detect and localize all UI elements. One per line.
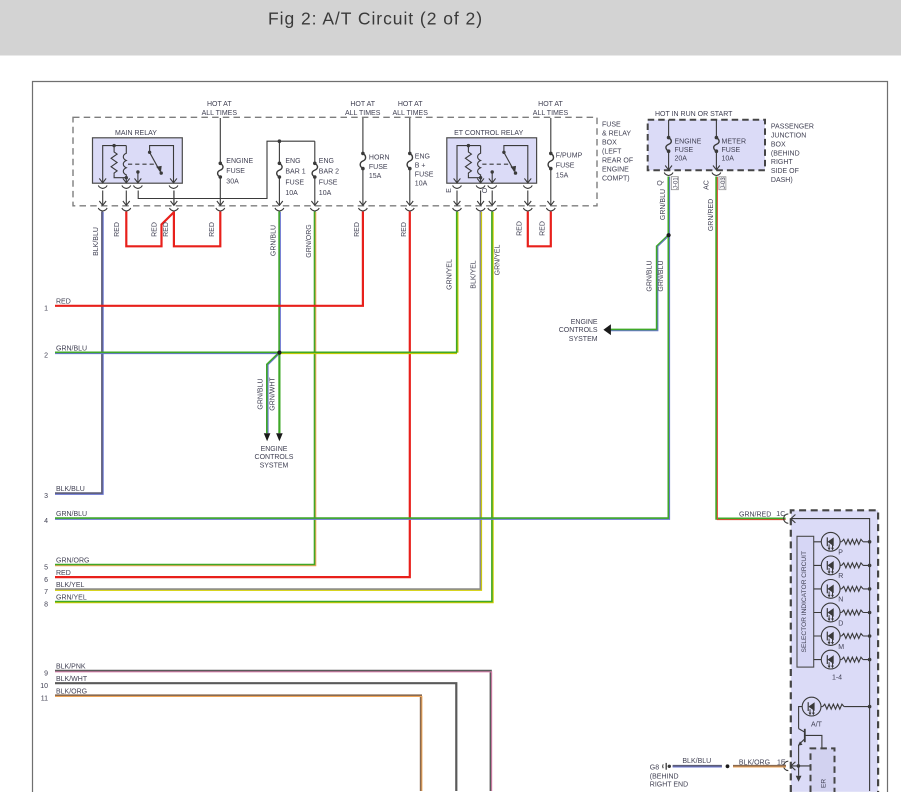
svg-text:R: R [838,573,843,580]
svg-text:COMPT): COMPT) [602,176,630,183]
main relay coil winding [123,146,126,183]
fuse & relay box label [602,122,633,183]
svg-text:D: D [838,620,843,627]
title bar [0,0,901,56]
wire: relay pin3 to ENG BAR fuse rail [138,141,315,198]
fuse ENG B+ FUSE 10A [408,152,412,156]
svg-text:ENGINE: ENGINE [571,319,598,326]
wire RED ET relay pin 4 to F/PUMP FUSE [528,212,551,247]
ET control relay switch arm [504,152,514,171]
main relay pin 4 box-edge connector [170,178,177,182]
svg-text:O: O [482,187,489,193]
passenger junction box label [771,124,814,184]
fuse box bottom edge connector [123,201,130,205]
wire GRN/YEL ET relay pin O to row 8 [55,212,492,602]
ET control relay pin 3 box-edge connector [489,178,496,182]
wire GRN/RED METER FUSE to selector indicator circuit [716,177,785,519]
wire: feed to METER FUSE 10A [715,120,717,170]
wire BLK/YEL ET relay pin 2 to row 7 [55,212,481,590]
wire GRN/BLU branch to engine controls system [610,235,669,330]
HORN FUSE 15A label [369,155,390,181]
wire: feed to ENGINE FUSE 20A [668,120,670,170]
svg-text:10A: 10A [285,190,298,197]
ET control relay contact pin 3 stub [491,172,493,183]
ENGINE FUSE 30A label [226,158,253,185]
main relay pin4 wire [173,191,175,206]
(BEHIND RIGHT END caption [650,773,688,788]
wire: HOT AT feed to HORN FUSE [362,118,364,205]
fuse box bottom edge connector [311,201,318,205]
svg-text:MAIN RELAY: MAIN RELAY [115,130,157,137]
selector LED P [821,532,840,551]
svg-text:HOT AT: HOT AT [207,101,232,108]
svg-text:FUSE: FUSE [369,164,388,171]
rail junction dot P [868,540,872,544]
svg-text:11: 11 [41,695,48,702]
resistor for LED R [842,563,864,568]
wire BLK/ORG splice to 1E [733,765,786,767]
svg-text:15A: 15A [556,173,569,180]
svg-text:ENG: ENG [415,154,430,161]
svg-text:SYSTEM: SYSTEM [260,463,289,470]
ET control relay coil winding [478,146,481,183]
svg-text:GRN/BLU: GRN/BLU [56,511,87,518]
ET control relay pin 2 box-edge connector [477,178,484,182]
wire GRN/BLU ENG BAR 1 fuse to row 2 junction [278,212,280,353]
HOT AT ALL TIMES label 2 [345,101,381,117]
selector LED D wire [814,612,870,614]
main relay pin wire [102,191,104,206]
svg-text:ALL TIMES: ALL TIMES [345,110,381,117]
wire: rail to ENG BAR 1 fuse [278,141,280,205]
selector LED 1-4 wire [814,659,870,661]
svg-text:ET CONTROL RELAY: ET CONTROL RELAY [454,130,523,137]
ET control relay switch pivot dot [502,151,505,154]
ENGINE CONTROLS SYSTEM text (right) [559,319,598,343]
resistor for LED 1-4 [842,657,864,662]
svg-text:SYSTEM: SYSTEM [569,336,598,343]
svg-text:FUSE: FUSE [285,179,304,186]
svg-text:GRN/BLU: GRN/BLU [646,260,653,291]
fuse box bottom edge connector [489,201,496,205]
svg-text:RED: RED [354,222,361,237]
wire GRN/ORG ENG BAR 2 fuse to row 5 [55,212,315,565]
svg-text:HORN: HORN [369,155,390,162]
ENG BAR 1 FUSE 10A label [285,158,305,197]
fuse box bottom edge connector [217,201,224,205]
svg-text:BAR 2: BAR 2 [319,169,339,176]
svg-text:RED: RED [151,222,158,237]
svg-text:G8: G8 [650,764,659,771]
fuse box bottom edge connector [360,201,367,205]
svg-text:BOX: BOX [771,141,786,148]
wire BLK/BLU G8 to splice [673,765,722,767]
svg-text:FUSE: FUSE [415,172,434,179]
rail junction dot N [868,587,872,591]
svg-text:1E: 1E [777,760,786,767]
svg-text:SIDE OF: SIDE OF [771,168,799,175]
fuse box bottom edge connector [547,201,554,205]
engine controls arrow left 1 [264,433,271,441]
ET control relay pin 4 box-edge connector [524,178,531,182]
ET control relay coil bottom junction dot [479,176,482,179]
svg-text:BLK/ORG: BLK/ORG [56,688,87,695]
selector LED 1-4 [821,650,840,669]
svg-text:(BEHIND: (BEHIND [650,773,679,780]
connector J-03 label [719,177,726,190]
svg-text:& RELAY: & RELAY [602,131,631,138]
svg-text:HOT AT: HOT AT [350,101,375,108]
ENGINE CONTROLS SYSTEM text (left) [255,446,294,470]
svg-text:HOT IN RUN OR START: HOT IN RUN OR START [655,111,733,118]
svg-text:GRN/BLU: GRN/BLU [258,378,265,409]
main relay pin wire [173,191,175,206]
wire row 2 GRN/BLU horizontal [55,352,457,354]
fuse ENGINE FUSE 20A [667,136,671,140]
svg-text:METER: METER [722,139,747,146]
svg-text:BLK/BLU: BLK/BLU [93,227,100,256]
resistor for LED M [842,634,864,639]
main relay coil bottom junction dot [125,176,128,179]
svg-text:M: M [838,644,844,651]
ET control relay coil resistor [465,146,471,175]
engine controls arrow left 2 [276,433,283,441]
METER FUSE 10A label [722,139,747,163]
emitter junction dot [797,764,801,768]
svg-text:10A: 10A [722,156,735,163]
junction box pin AC connector [713,166,720,170]
main relay coil resistor [111,146,117,175]
svg-text:2: 2 [44,352,48,359]
svg-text:RED: RED [56,570,71,577]
wire: rail to ENG BAR 2 fuse [314,141,316,205]
resistor for LED P [842,539,864,544]
svg-text:FUSE: FUSE [722,147,741,154]
svg-text:BLK/YEL: BLK/YEL [56,582,85,589]
main relay switch contact dot [160,171,163,174]
main relay box [93,138,183,183]
svg-text:RED: RED [56,299,71,306]
resistor for LED D [842,610,864,615]
svg-text:BLK/BLU: BLK/BLU [682,758,711,765]
fuse F/PUMP FUSE 15A [549,152,553,156]
HOT AT ALL TIMES label 4 [533,101,569,117]
wire: 1C feed to resistor rail [792,519,870,542]
wire row 10 BLK/WHT [55,683,456,791]
svg-text:AC: AC [704,180,711,190]
wire GRN/WHT branch to engine controls (left) [278,353,280,434]
fuse ENGINE FUSE 30A [219,162,223,166]
fuse box bottom edge connector [99,201,106,205]
svg-text:SELECTOR INDICATOR CIRCUIT: SELECTOR INDICATOR CIRCUIT [801,551,808,652]
svg-text:RED: RED [163,222,170,237]
svg-text:FUSE: FUSE [556,163,575,170]
svg-text:20A: 20A [675,156,688,163]
emitter ground arrow [796,776,802,782]
A/T resistor [823,704,845,709]
selector LED N wire [814,588,870,590]
svg-text:E: E [446,188,453,193]
svg-text:BOX: BOX [602,140,617,147]
svg-text:GRN/BLU: GRN/BLU [660,189,667,220]
rail junction dot D [868,611,872,615]
svg-text:GRN/WHT: GRN/WHT [270,377,277,411]
svg-text:J-01: J-01 [673,177,679,189]
svg-text:GRN/YEL: GRN/YEL [495,245,502,276]
svg-text:Q: Q [657,180,664,186]
svg-text:A/T: A/T [811,721,823,728]
ET relay pin wire [456,191,458,206]
svg-text:BAR 1: BAR 1 [285,169,305,176]
svg-text:BLK/WHT: BLK/WHT [56,676,88,683]
ENG B+ FUSE 10A label [415,154,434,188]
svg-text:FUSE: FUSE [602,122,621,129]
HOT AT ALL TIMES label 1 [202,101,238,117]
main relay top rail junction dot [112,144,115,147]
svg-text:10A: 10A [415,181,428,188]
ET control relay mechanical link (dashed) [482,163,510,165]
svg-text:REAR OF: REAR OF [602,158,633,165]
selector LED D [821,603,840,622]
svg-text:PASSENGER: PASSENGER [771,124,814,131]
ET control relay K2 [447,138,537,189]
passenger junction box (dashed, filled) [648,120,765,171]
main relay pin 1 box-edge connector [99,178,106,182]
engine controls system arrow (right) [603,324,611,335]
svg-text:10A: 10A [319,190,332,197]
1E entry connector [784,761,789,770]
row 2 junction dot [277,351,281,355]
svg-text:GRN/ORG: GRN/ORG [56,558,89,565]
svg-text:N: N [838,597,843,604]
svg-text:30A: 30A [226,178,239,185]
wire row 9 BLK/PNK [55,671,491,791]
svg-text:BLK/BLU: BLK/BLU [56,486,85,493]
meter sub-box (dashed) [811,748,835,791]
svg-text:ENG: ENG [285,158,300,165]
resistor rail [869,542,871,791]
svg-text:15A: 15A [369,173,382,180]
wire: 1E entry to meter box [792,765,811,767]
rail junction dot M [868,634,872,638]
ET control relay coil circuit wires [457,146,481,183]
svg-text:RED: RED [540,221,547,236]
selector LED R wire [814,564,870,566]
wire RED main relay pin4 to ENGINE FUSE 30A [174,212,220,247]
svg-text:ENG: ENG [319,158,334,165]
svg-text:ENGINE: ENGINE [226,158,253,165]
SELECTOR INDICATOR CIRCUIT label box [797,536,814,667]
fuse box bottom edge connector [524,201,531,205]
wire GRN/YEL ET relay pin E to row 2 [456,212,458,353]
wire: HOT AT feed to ENG B+ FUSE [409,118,411,205]
main relay switch arm [150,152,160,171]
fuse box bottom edge connector [477,201,484,205]
main relay switch common rail [150,146,174,183]
fuse box bottom edge connector [276,201,283,205]
A/T LED [802,697,821,716]
svg-text:ALL TIMES: ALL TIMES [533,110,569,117]
ET control relay switch contact dot [514,171,517,174]
wire BLK/BLU main relay pin1 to row 3 [55,212,102,494]
svg-text:GRN/BLU: GRN/BLU [56,345,87,352]
svg-text:ALL TIMES: ALL TIMES [392,110,428,117]
fuse box bottom edge connector [454,201,461,205]
ET control relay switch common rail [504,146,528,183]
svg-text:GRN/RED: GRN/RED [739,511,771,518]
svg-text:BLK/ORG: BLK/ORG [739,760,770,767]
svg-text:ER: ER [821,779,828,788]
selector LED P wire [814,541,870,543]
svg-text:10: 10 [40,683,48,690]
F/PUMP FUSE 15A label [556,153,583,180]
selector LED N [821,580,840,599]
svg-text:ENGINE: ENGINE [261,446,288,453]
svg-text:GRN/YEL: GRN/YEL [56,595,87,602]
svg-text:8: 8 [44,602,48,609]
svg-text:HOT AT: HOT AT [538,101,563,108]
main relay K1 [93,138,183,189]
svg-text:ENGINE: ENGINE [602,167,629,174]
wire GRN/BLU branch to engine controls (left) [267,353,279,434]
svg-text:BLK/PNK: BLK/PNK [56,664,86,671]
svg-text:B +: B + [415,163,426,170]
svg-text:ENGINE: ENGINE [675,139,702,146]
svg-text:7: 7 [44,589,48,596]
main relay pin wire [125,191,127,206]
ET relay pin wire [491,191,493,206]
wire RED ENG B+ FUSE to row 6 [55,212,410,578]
fuse box bottom edge connector [171,201,178,205]
junction box pin Q connector [665,166,672,170]
svg-text:J-03: J-03 [721,177,727,189]
main relay contact pin 3 stub [137,172,139,183]
svg-text:CONTROLS: CONTROLS [559,327,598,334]
ET control relay pin 1 box-edge connector [454,178,461,182]
svg-text:HOT AT: HOT AT [398,101,423,108]
HOT AT ALL TIMES label 3 [392,101,428,117]
svg-text:RED: RED [114,222,121,237]
fuse HORN FUSE 15A [361,152,365,156]
svg-text:F/PUMP: F/PUMP [556,153,583,160]
fuse ENG BAR 2 FUSE 10A [313,162,317,166]
wire: HOT AT feed to ENGINE FUSE 30A [219,118,221,205]
svg-text:1: 1 [44,306,48,313]
svg-text:RED: RED [209,222,216,237]
svg-text:GRN/BLU: GRN/BLU [658,260,665,291]
fuse ENG BAR 1 FUSE 10A [278,162,282,166]
main relay pin 2 box-edge connector [123,178,130,182]
rail junction dot 1-4 [868,658,872,662]
transistor Q1 [798,729,822,776]
svg-text:BLK/YEL: BLK/YEL [470,260,477,289]
wire GRN/BLU ENGINE FUSE 20A to row 4 [55,177,669,519]
main relay coil circuit wires [103,146,127,183]
svg-text:Fig 2: A/T Circuit (2 of 2): Fig 2: A/T Circuit (2 of 2) [268,9,483,29]
svg-text:RED: RED [517,221,524,236]
svg-text:4: 4 [44,518,48,525]
svg-text:FUSE: FUSE [675,147,694,154]
selector LED R [821,556,840,575]
selector indicator circuit box (dashed) [791,510,878,792]
ET control relay top rail junction dot [467,144,470,147]
splice dot [726,764,730,768]
svg-text:CONTROLS: CONTROLS [255,454,294,461]
svg-text:P: P [838,550,843,557]
svg-text:GRN/BLU: GRN/BLU [271,225,278,256]
svg-text:GRN/RED: GRN/RED [708,199,715,231]
ground G8 symbol [663,763,671,770]
svg-text:5: 5 [44,565,48,572]
svg-text:1-4: 1-4 [832,675,842,682]
ENG BAR 2 FUSE 10A label [319,158,339,197]
svg-text:9: 9 [44,671,48,678]
ENGINE FUSE 20A label [675,139,702,163]
ET relay pin wire [527,191,529,206]
selector LED M wire [814,635,870,637]
selector LED M [821,627,840,646]
wire RED main relay pin2 to pin4 [126,212,173,247]
ET control relay box [447,138,537,183]
wire: HOT AT feed to F/PUMP FUSE [550,118,552,205]
ENG BAR rail junction dot [278,139,282,143]
svg-text:(LEFT: (LEFT [602,149,622,156]
svg-text:RIGHT END: RIGHT END [650,781,688,788]
wire row 11 BLK/ORG [55,696,421,792]
main relay mechanical link (dashed) [128,163,156,165]
rail junction dot R [868,564,872,568]
junction dot GRN/BLU branch [667,233,671,237]
fuse box bottom edge connector [406,201,413,205]
svg-text:JUNCTION: JUNCTION [771,133,806,140]
fuse METER FUSE 10A [715,136,719,140]
svg-text:DASH): DASH) [771,177,793,184]
svg-text:GRN/ORG: GRN/ORG [306,224,313,257]
svg-text:RIGHT: RIGHT [771,159,794,166]
svg-text:FUSE: FUSE [226,168,245,175]
svg-text:GRN/YEL: GRN/YEL [446,259,453,290]
connector J-01 label [671,177,678,190]
ET relay pin wire [480,191,482,206]
A/T rail junction dot [868,705,872,709]
resistor for LED N [842,586,864,591]
svg-text:3: 3 [44,493,48,500]
main relay switch pivot dot [148,151,151,154]
main relay pin 3 box-edge connector [135,178,142,182]
wire RED HORN FUSE to row 1 [55,212,363,306]
1C entry connector [784,514,789,523]
A/T LED wire [799,707,870,729]
svg-text:RED: RED [401,222,408,237]
svg-text:6: 6 [44,577,48,584]
svg-text:ALL TIMES: ALL TIMES [202,110,238,117]
svg-text:(BEHIND: (BEHIND [771,150,800,157]
fuse & relay box (dashed) [73,117,597,206]
svg-text:FUSE: FUSE [319,179,338,186]
